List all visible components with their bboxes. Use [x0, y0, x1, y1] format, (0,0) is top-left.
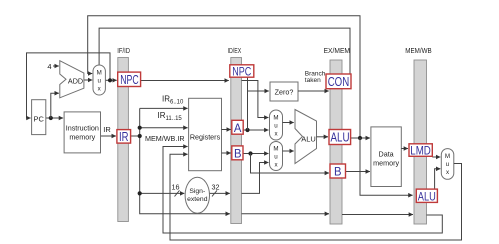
pipeline bar EX/MEM [330, 60, 342, 224]
wire immediate to ALU mux2 lower input [242, 163, 269, 194]
mux ALU input 1 [270, 110, 283, 140]
wire branch target into mux upper input [88, 16, 360, 138]
wire WB mux output loop to Registers write data [170, 154, 462, 240]
svg-text:M: M [273, 115, 278, 122]
node sign-extend feed junction [138, 191, 142, 195]
latch MEM/WB.ALU [416, 189, 437, 203]
wire IR latch output to junction [131, 135, 140, 137]
svg-text:Instruction: Instruction [66, 124, 99, 133]
wire B to ALU mux2 upper input [243, 153, 269, 155]
wire Registers to A [222, 129, 231, 131]
svg-text:IR: IR [119, 130, 129, 144]
svg-text:MEM/WB: MEM/WB [405, 48, 432, 55]
wire EX/MEM B to data memory [346, 171, 370, 173]
wire IR11..15 to Registers [140, 127, 188, 129]
latch IF/ID.IR [117, 130, 131, 144]
wire PC to instruction memory [46, 117, 63, 119]
svg-text:M: M [445, 153, 450, 160]
wire ALU to EX/MEM ALU latch [317, 136, 329, 138]
svg-text:M: M [273, 146, 278, 153]
wire mux2 to ALU [283, 150, 294, 152]
latch EX/MEM.ALU [329, 130, 351, 145]
svg-text:memory: memory [69, 133, 95, 142]
block PC [32, 100, 46, 135]
wire ADD to mux [84, 79, 92, 81]
latch ID/EX.NPC [230, 65, 254, 79]
wire PC to ADD [51, 93, 59, 118]
svg-text:ADD: ADD [68, 77, 83, 86]
latch EX/MEM.B [330, 164, 346, 179]
block Registers [189, 98, 222, 170]
wire Registers to B [222, 152, 231, 154]
pipeline bar ID/EX [231, 58, 242, 224]
svg-text:PC: PC [33, 115, 44, 124]
svg-text:taken: taken [305, 77, 321, 84]
wire NPC to ALU mux1 upper input [242, 81, 269, 118]
block Zero? [270, 82, 298, 101]
wire data memory to LMD [401, 148, 408, 150]
wire LMD to WB mux [432, 156, 440, 158]
wire MEM/WB.IR loop to Registers [163, 147, 442, 234]
mux write-back [441, 149, 454, 180]
svg-text:u: u [274, 123, 278, 130]
wire sign-extend to ID/EX [209, 192, 229, 194]
block instruction memory [64, 112, 100, 153]
wire bottom IR row ID/EX to EX/MEM [242, 213, 330, 215]
svg-text:EX/MEM: EX/MEM [324, 48, 351, 55]
wire mux to NPC latch [105, 79, 116, 81]
svg-text:A: A [234, 121, 242, 135]
svg-text:u: u [274, 154, 278, 161]
adder ADD [60, 61, 84, 98]
svg-text:Registers: Registers [190, 132, 221, 141]
node A output junction [245, 128, 249, 132]
wire IR6..10 to Registers [140, 107, 188, 109]
svg-text:M: M [97, 70, 102, 77]
node PC output junction [49, 116, 53, 120]
latch IF/ID.NPC [118, 72, 141, 87]
svg-text:NPC: NPC [120, 73, 139, 87]
svg-text:ID/EX: ID/EX [228, 48, 242, 55]
wire EX/MEM ALU result to MEM/WB ALU latch [360, 138, 413, 195]
pipeline bar MEM/WB [414, 60, 427, 224]
wire CON to mux select [99, 28, 350, 74]
svg-text:16: 16 [172, 183, 180, 192]
node ALU output junction [358, 136, 362, 140]
svg-text:extend: extend [187, 196, 208, 203]
wire B to EX/MEM B latch [251, 154, 330, 174]
svg-text:memory: memory [373, 159, 399, 168]
wire instruction memory to IR latch [101, 135, 116, 137]
wire Zero? to CON [298, 90, 329, 92]
svg-text:Sign-: Sign- [189, 188, 205, 195]
latch ID/EX.B [232, 146, 243, 161]
svg-text:Zero?: Zero? [275, 88, 294, 97]
wire bottom IR row EX/MEM to MEM/WB [342, 214, 413, 216]
svg-text:32: 32 [212, 183, 220, 192]
svg-text:IF/ID: IF/ID [117, 48, 130, 55]
svg-text:u: u [446, 161, 450, 168]
latch MEM/WB.LMD [409, 143, 432, 157]
svg-text:u: u [97, 78, 101, 85]
node IR junction upper [138, 126, 142, 130]
wire NPC IF/ID to ID/EX [141, 80, 229, 82]
ellipse sign-extend [185, 177, 209, 213]
svg-text:LMD: LMD [410, 143, 431, 157]
svg-text:B: B [234, 146, 242, 160]
svg-text:B: B [334, 165, 342, 179]
node IR junction [138, 134, 142, 138]
svg-text:NPC: NPC [232, 67, 251, 79]
wire mux1 to ALU [283, 122, 294, 124]
latch ID/EX.A [232, 120, 243, 135]
mux ALU input 2 [270, 142, 283, 171]
pipeline bar IF/ID [118, 58, 129, 222]
wire EX/MEM ALU to data memory [351, 137, 370, 139]
svg-text:4: 4 [47, 62, 51, 71]
svg-text:ALU: ALU [331, 131, 350, 145]
node B output junction [248, 151, 252, 155]
wire to sign-extend [140, 192, 185, 194]
svg-text:ALU: ALU [418, 189, 436, 203]
svg-text:MEM/WB.IR: MEM/WB.IR [145, 134, 185, 143]
svg-text:Data: Data [379, 150, 394, 159]
wire A to ALU mux1 lower input [243, 129, 268, 131]
alu ALU [295, 110, 317, 164]
wire PC feedback loop from mux output [27, 53, 111, 118]
block data memory [371, 127, 401, 187]
svg-text:CON: CON [328, 75, 350, 89]
svg-text:ALU: ALU [301, 135, 316, 144]
wire IR vertical distribution and bottom IR row to ID/EX [140, 108, 230, 213]
svg-text:IR: IR [103, 125, 111, 134]
wire NPC latch down to A row [247, 77, 249, 130]
wire MEM/WB ALU to WB mux [435, 169, 441, 189]
wire A to Zero? [248, 90, 269, 92]
wire constant 4 to ADD [53, 65, 59, 67]
mux PC select [93, 65, 105, 95]
latch EX/MEM.CON [326, 74, 351, 89]
node mux output junction [108, 78, 112, 82]
